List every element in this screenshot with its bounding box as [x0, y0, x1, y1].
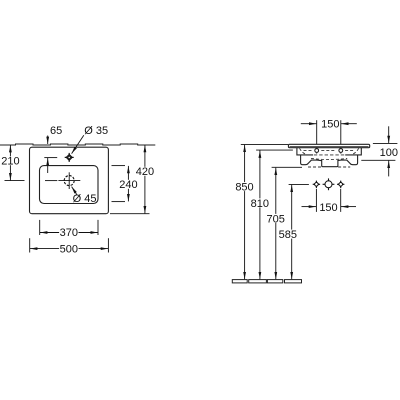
tap holes (front view) — [315, 149, 343, 153]
svg-text:65: 65 — [50, 125, 62, 137]
svg-text:810: 810 — [251, 198, 269, 210]
svg-text:100: 100 — [380, 147, 398, 159]
dim 420 (basin depth) — [110, 145, 150, 214]
basin inner bowl (plan view) — [40, 166, 99, 204]
dim 705 (boss bottom height) — [272, 167, 302, 279]
floor line (tiles) — [232, 280, 301, 283]
svg-text:705: 705 — [267, 213, 285, 225]
dim 100 (basin height) — [361, 126, 397, 176]
lower profile with feet (front view) — [301, 155, 358, 165]
faucet hole symbol (plan view, Ø35) — [65, 153, 74, 162]
svg-text:240: 240 — [119, 179, 137, 191]
upper band (front view body) — [297, 148, 361, 155]
dim 150 top (tap hole spacing) — [301, 120, 357, 144]
dim 810 (tap row height) — [256, 150, 293, 279]
svg-text:420: 420 — [136, 166, 154, 178]
wall line (plan view, tiled wall) — [0, 144, 155, 145]
svg-text:Ø 45: Ø 45 — [73, 193, 97, 205]
dim 210 (wall to drain axis) — [5, 145, 25, 181]
right fixing hole — [337, 181, 344, 188]
drain boss (front view) — [322, 160, 338, 167]
slab (front view top) — [288, 144, 369, 147]
svg-text:370: 370 — [60, 227, 78, 239]
basin outer rect (plan view) — [30, 147, 109, 214]
drain symbol (plan view, Ø45) — [45, 172, 80, 189]
hidden bowl contour (dashed) — [300, 148, 359, 167]
svg-text:Ø 35: Ø 35 — [84, 125, 108, 137]
leader Ø35 — [72, 135, 84, 153]
dim 370 (bowl width) — [40, 220, 98, 235]
svg-text:150: 150 — [321, 119, 339, 131]
dim 240 (bowl depth) — [112, 166, 129, 202]
dim 150 bottom (fixing hole spacing) — [302, 189, 357, 212]
svg-text:500: 500 — [60, 243, 78, 255]
centre drain hole (front view) — [323, 178, 335, 190]
dim 850 (rim height) — [241, 144, 288, 279]
slab front edge line — [290, 145, 369, 147]
leader Ø45 — [72, 187, 77, 195]
svg-text:585: 585 — [279, 229, 297, 241]
svg-text:210: 210 — [1, 156, 19, 168]
dim 500 (basin width) — [30, 238, 109, 252]
dim 65 (wall to tap row) — [44, 136, 57, 174]
dim 585 (fixing holes height) — [289, 184, 309, 279]
left fixing hole — [313, 181, 320, 188]
svg-text:850: 850 — [235, 182, 253, 194]
svg-text:150: 150 — [319, 202, 337, 214]
